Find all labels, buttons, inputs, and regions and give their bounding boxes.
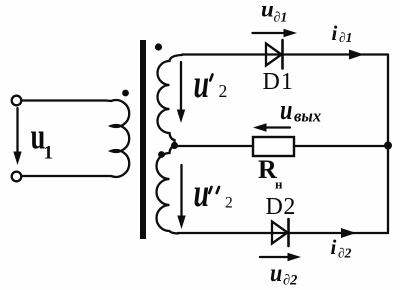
svg-text:∂2: ∂2 [283, 273, 297, 289]
svg-text:u: u [194, 171, 210, 215]
arrow: u'2 voltage direction [177, 62, 185, 123]
svg-text:u: u [280, 95, 292, 126]
svg-text:1: 1 [44, 143, 54, 164]
svg-text:i: i [332, 21, 338, 45]
arrow: u''2 voltage direction [177, 165, 185, 229]
label u_d2 [270, 260, 297, 289]
wire: top terminal to primary winding [22, 99, 106, 101]
svg-text:вых: вых [294, 107, 321, 126]
arrow: i_d1 current on top rail [349, 50, 364, 60]
svg-text:i: i [331, 235, 337, 259]
label u'2 [194, 62, 228, 106]
wire: load resistor to right rail [294, 145, 388, 147]
polarity dot: secondary lower [158, 151, 165, 158]
resistor R_n (load) [253, 137, 294, 156]
svg-text:D1: D1 [263, 69, 294, 95]
label u_vyh [280, 95, 321, 126]
svg-text:∂1: ∂1 [274, 11, 288, 26]
svg-text:u: u [194, 62, 210, 106]
diode D1 [266, 40, 283, 69]
svg-text:2: 2 [225, 195, 233, 212]
arrow: u_d1 voltage over D1 [253, 29, 298, 37]
svg-text:∂1: ∂1 [339, 30, 352, 45]
transformer primary winding L1 [106, 100, 129, 177]
label u1 [31, 115, 54, 163]
wire: bottom terminal to primary winding [22, 175, 106, 177]
svg-text:2: 2 [219, 81, 228, 101]
transformer secondary lower winding [157, 146, 179, 234]
polarity dot: secondary upper [155, 43, 162, 50]
arrow: u_d2 voltage over D2 [260, 253, 301, 261]
transformer core [140, 40, 146, 239]
wire: bottom rail through D2 [178, 232, 388, 234]
polarity dot: primary [122, 90, 129, 97]
arrow: u_vyh output voltage [253, 123, 290, 131]
svg-text:D2: D2 [266, 194, 296, 220]
transformer secondary upper winding [158, 55, 183, 146]
label i_d2 [331, 235, 352, 261]
label u''2 [194, 171, 233, 215]
svg-text:∂2: ∂2 [338, 246, 352, 261]
node: output junction on right rail [384, 142, 392, 150]
label i_d1 [332, 21, 353, 45]
terminal: primary input bottom [12, 172, 22, 182]
arrow: u1 voltage direction [13, 108, 21, 165]
node: center tap junction [171, 142, 178, 149]
svg-text:u: u [270, 260, 282, 288]
arrow: i_d2 current on bottom rail [341, 228, 356, 238]
wire: center tap to load resistor [175, 145, 254, 147]
terminal: primary input top [12, 96, 22, 106]
svg-text:н: н [275, 177, 283, 192]
label u_d1 [261, 0, 287, 26]
diode D2 [272, 219, 289, 246]
wire: top rail through D1 [182, 53, 388, 55]
svg-text:u: u [261, 0, 274, 22]
wire: right vertical rail [387, 55, 389, 234]
label R_n [258, 155, 283, 192]
